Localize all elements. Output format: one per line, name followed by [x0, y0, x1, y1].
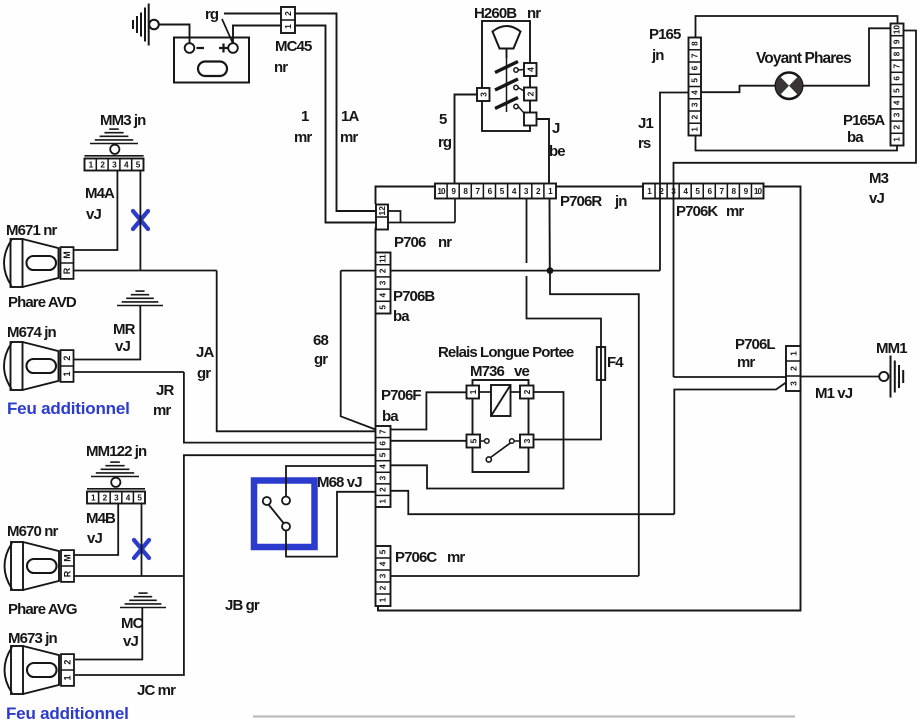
ground MM1 — [879, 372, 888, 381]
svg-text:nr: nr — [274, 59, 288, 76]
connector MM122 strip — [87, 492, 145, 504]
svg-text:3: 3 — [522, 438, 532, 443]
svg-text:2: 2 — [788, 366, 798, 371]
svg-text:P706C: P706C — [395, 549, 437, 566]
svg-text:4: 4 — [690, 90, 699, 95]
svg-text:rg: rg — [438, 134, 452, 151]
svg-text:M: M — [62, 251, 72, 259]
headlamp M674 jn - Feu additionnel — [4, 343, 12, 389]
svg-text:P165A: P165A — [843, 112, 885, 129]
svg-text:M1 vJ: M1 vJ — [815, 385, 853, 402]
wire rg to battery plus — [222, 19, 233, 43]
svg-text:M: M — [63, 554, 73, 562]
svg-text:P165: P165 — [649, 26, 681, 43]
pin out (bottom) of H260B — [524, 113, 537, 126]
svg-text:2: 2 — [379, 268, 388, 273]
svg-text:mr: mr — [447, 549, 465, 566]
connector P165 jn — [689, 38, 702, 136]
svg-text:Voyant Phares: Voyant Phares — [756, 50, 851, 67]
svg-text:JB gr: JB gr — [225, 597, 260, 614]
svg-text:Feu additionnel: Feu additionnel — [7, 399, 130, 418]
headlamp M671 nr - Phare AVD — [4, 240, 12, 286]
svg-text:J: J — [552, 120, 560, 137]
svg-text:5: 5 — [379, 305, 388, 310]
svg-text:mr: mr — [153, 402, 171, 419]
svg-text:mr: mr — [726, 203, 744, 220]
svg-text:MM3 jn: MM3 jn — [100, 112, 146, 129]
svg-text:6: 6 — [379, 441, 388, 446]
svg-text:M4B: M4B — [86, 510, 116, 527]
svg-text:P706R: P706R — [560, 193, 602, 210]
relay contact circles and arm — [480, 440, 485, 442]
wire main beam right feed into P706C pin 3 — [391, 575, 639, 577]
wire P706R pin 9 to pin 12 feed — [454, 199, 456, 223]
switch wiper 1 — [495, 62, 518, 73]
svg-text:5: 5 — [379, 452, 388, 457]
svg-text:vJ: vJ — [869, 190, 884, 207]
wire relay pin 5 to P706F pin 6 — [391, 440, 467, 442]
svg-text:2: 2 — [283, 11, 293, 16]
wire M673 pin 2 to ground MC — [75, 608, 142, 660]
svg-text:5: 5 — [690, 78, 699, 83]
svg-text:gr: gr — [197, 365, 211, 382]
wire phare AVG feed into P706F pin 5 — [184, 455, 376, 576]
svg-text:J1: J1 — [638, 115, 653, 132]
wire P165 pin 8 to P165A pin 10 (top loop) — [696, 16, 898, 38]
svg-text:4: 4 — [379, 561, 388, 566]
svg-text:MR: MR — [113, 321, 136, 338]
contact circles — [514, 68, 518, 72]
svg-text:1: 1 — [379, 498, 388, 503]
svg-text:1: 1 — [468, 389, 478, 394]
switch M68 vJ — [263, 497, 271, 505]
svg-text:1: 1 — [893, 137, 902, 142]
faded scan line bottom — [253, 715, 795, 717]
battery MC45 source — [174, 38, 249, 83]
connector P706 pin 12 (nr) — [376, 205, 388, 230]
switch H260B nr (lighting stalk) — [482, 21, 530, 131]
switch wiper 3 — [495, 98, 518, 109]
svg-text:gr: gr — [314, 351, 328, 368]
switch M68 vJ annotation box (blue) — [254, 481, 315, 548]
svg-text:5: 5 — [379, 549, 388, 554]
svg-text:2: 2 — [522, 389, 532, 394]
svg-text:5: 5 — [468, 438, 478, 443]
switch wiper 2 — [495, 79, 518, 90]
svg-text:jn: jn — [614, 193, 627, 210]
svg-text:Phare AVD: Phare AVD — [8, 294, 77, 311]
wire lamp to P165 pin 4 — [701, 86, 776, 93]
svg-text:9: 9 — [893, 39, 902, 44]
wire 5 rg from H260B pin 3 to P706R pin 9 — [455, 95, 478, 184]
wire phare AVG pin R (JB gr) — [75, 575, 184, 577]
svg-text:7: 7 — [893, 63, 902, 68]
svg-text:MM122 jn: MM122 jn — [86, 443, 147, 460]
svg-text:1: 1 — [283, 24, 293, 29]
wire M674 pin 1 (JR) — [74, 371, 184, 373]
svg-text:3: 3 — [478, 92, 488, 97]
wire M68 bottom to P706F pin 2 — [286, 492, 376, 557]
svg-text:1: 1 — [62, 371, 72, 376]
svg-text:2: 2 — [62, 356, 72, 361]
svg-text:2: 2 — [63, 660, 73, 665]
wire M4A vJ from MM3 pin 3 to M671 pin M — [74, 171, 118, 251]
svg-text:MC45: MC45 — [275, 38, 312, 55]
svg-text:mr: mr — [737, 354, 755, 371]
wire 68 gr from P706B pin 2 to P706F pin 7 — [341, 270, 376, 272]
svg-text:8: 8 — [893, 51, 902, 56]
svg-text:P706: P706 — [394, 234, 426, 251]
svg-text:P706L: P706L — [735, 336, 775, 353]
wire rg to MC45 pin 2 — [224, 13, 281, 15]
wire M674 pin 2 to ground MR — [74, 306, 140, 360]
svg-text:7: 7 — [379, 429, 388, 434]
relay pin 2 — [520, 386, 534, 399]
svg-text:2: 2 — [690, 114, 699, 119]
wire 1 mr from MC45 pin 1 — [295, 26, 376, 223]
svg-text:JA: JA — [196, 344, 214, 361]
svg-text:Phare AVG: Phare AVG — [8, 601, 77, 618]
ground MC vJ — [120, 607, 166, 609]
relay pin 1 — [467, 386, 480, 399]
svg-text:3: 3 — [788, 381, 798, 386]
svg-text:ba: ba — [393, 308, 410, 325]
svg-text:F4: F4 — [607, 354, 624, 371]
wire M68 top to P706F pin 4 — [286, 466, 376, 497]
relay coil — [491, 385, 511, 416]
svg-text:Feu additionnel: Feu additionnel — [6, 704, 129, 721]
svg-text:2: 2 — [379, 585, 388, 590]
svg-text:P706F: P706F — [381, 387, 421, 404]
relay pin 3 — [520, 435, 534, 448]
lamp Voyant Phares — [776, 73, 802, 99]
wire fuse F4 to relay pin 3 — [534, 380, 602, 440]
svg-text:rs: rs — [638, 135, 651, 152]
svg-text:4: 4 — [525, 67, 535, 72]
svg-text:vJ: vJ — [123, 633, 138, 650]
wire JA gr into P706F pin 7 — [217, 271, 376, 432]
svg-text:1: 1 — [788, 351, 798, 356]
svg-text:1: 1 — [690, 127, 699, 132]
fuse F4 — [597, 347, 605, 380]
ground MR vJ — [117, 305, 163, 307]
svg-text:mr: mr — [340, 129, 358, 146]
wire M673 pin 1 (JC mr) — [75, 576, 184, 675]
svg-text:nr: nr — [438, 234, 452, 251]
svg-text:nr: nr — [527, 5, 541, 22]
connector MC45 nr — [281, 7, 295, 33]
connector P706C mr — [376, 546, 391, 606]
svg-text:5: 5 — [893, 88, 902, 93]
wire M3 into P706L pin 2 — [674, 376, 787, 378]
svg-text:mr: mr — [294, 129, 312, 146]
svg-text:4: 4 — [379, 464, 388, 469]
relay pin 5 — [467, 435, 481, 448]
wire P706R pin 3 to fuse F4 — [526, 199, 528, 264]
connector P706K mr — [643, 184, 764, 199]
ground MM3 jn — [90, 143, 138, 145]
relay M736 ve - Relais Longue Portee — [473, 380, 529, 472]
wire coil to pin2 — [511, 391, 521, 393]
svg-text:6: 6 — [690, 65, 699, 70]
wire relay pin 1 to P706F pin 7 — [391, 392, 468, 429]
connector P706R jn — [435, 184, 556, 199]
pin 4 of H260B — [524, 63, 537, 76]
svg-text:2: 2 — [525, 91, 535, 96]
svg-text:P706B: P706B — [393, 288, 435, 305]
svg-text:1: 1 — [63, 675, 73, 680]
svg-text:jn: jn — [651, 47, 664, 64]
svg-text:4: 4 — [379, 292, 388, 297]
svg-text:3: 3 — [379, 280, 388, 285]
svg-text:ba: ba — [382, 408, 399, 425]
svg-text:M4A: M4A — [85, 185, 115, 202]
wire lamp to P165A pin 10 — [802, 28, 890, 85]
wire junction down to main-beam feed — [550, 271, 639, 576]
svg-text:8: 8 — [690, 41, 699, 46]
wire P706L pin 3 branch — [674, 383, 786, 515]
svg-text:5: 5 — [439, 111, 447, 128]
svg-text:M3: M3 — [869, 170, 889, 187]
svg-text:be: be — [549, 143, 565, 160]
svg-text:vJ: vJ — [115, 338, 130, 355]
wire MM122 pin 5 down to phare AVG return — [141, 504, 143, 577]
svg-text:2: 2 — [379, 487, 388, 492]
svg-text:MC: MC — [121, 615, 144, 632]
connector P706B ba — [376, 253, 391, 314]
svg-text:vJ: vJ — [86, 206, 101, 223]
svg-text:H260B: H260B — [474, 5, 517, 22]
wire J1 rs from junction up to P165 pin 4 — [660, 93, 689, 271]
wire pin1 to coil — [479, 391, 491, 393]
svg-text:ba: ba — [847, 129, 864, 146]
headlamp M673 jn - Feu additionnel 2 — [5, 647, 13, 693]
X annotation 2 (blue) — [134, 540, 149, 558]
headlamp M670 nr - Phare AVG — [5, 543, 13, 589]
svg-text:M673 jn: M673 jn — [8, 630, 57, 647]
svg-text:M670 nr: M670 nr — [7, 523, 58, 540]
wire M3 vJ from P165A pin 10 to P706L — [674, 31, 917, 378]
svg-text:11: 11 — [379, 254, 388, 263]
svg-text:68: 68 — [313, 332, 328, 349]
wire 1A mr from MC45 pin 2 — [295, 14, 376, 212]
svg-text:3: 3 — [379, 475, 388, 480]
svg-text:4: 4 — [893, 100, 902, 105]
wire J be from H260B to P706R pin 1 — [537, 119, 550, 184]
wire MM3 pin 5 down to phare AVD return — [139, 171, 141, 271]
connector P165A ba — [891, 24, 904, 146]
svg-text:3: 3 — [690, 102, 699, 107]
svg-text:R: R — [62, 267, 72, 274]
ECU box P706 — [376, 187, 801, 611]
svg-text:R: R — [63, 570, 73, 577]
ground (battery negative earth) — [132, 20, 134, 29]
wire phare AVD pin R (JA feed) — [74, 270, 217, 272]
wire P706F pin 2 right to P706L pin 3 net — [391, 491, 675, 514]
X annotation (blue) — [133, 211, 148, 229]
ground MM122 jn — [91, 476, 139, 478]
svg-text:12: 12 — [377, 206, 387, 216]
svg-text:rg: rg — [205, 6, 219, 23]
svg-text:M674 jn: M674 jn — [7, 324, 56, 341]
wire JR mr into P706F pin 6 — [184, 372, 376, 443]
svg-text:ve: ve — [514, 363, 529, 380]
svg-text:1A: 1A — [341, 108, 359, 125]
wire M1 vJ from P706L to ground MM1 — [801, 376, 880, 378]
svg-text:Relais Longue Portee: Relais Longue Portee — [438, 344, 574, 361]
svg-text:10: 10 — [893, 25, 902, 35]
svg-text:M68 vJ: M68 vJ — [317, 474, 362, 491]
connector P706L mr — [786, 346, 801, 391]
pin 2 of H260B — [524, 88, 537, 101]
svg-text:3: 3 — [893, 112, 902, 117]
svg-text:JC mr: JC mr — [137, 682, 176, 699]
wire ground to battery minus — [159, 25, 190, 44]
connector MM3 strip — [85, 159, 144, 171]
svg-text:JR: JR — [156, 382, 174, 399]
wire P165 pin 1 to P165A pin 1 (bottom loop) — [696, 136, 898, 151]
wire battery plus to MC45 pin 1 — [233, 26, 281, 44]
junction node J — [547, 267, 554, 274]
connector P706F ba — [376, 426, 391, 507]
svg-text:1: 1 — [379, 597, 388, 602]
svg-text:M671 nr: M671 nr — [6, 222, 57, 239]
svg-text:P706K: P706K — [676, 203, 718, 220]
svg-text:vJ: vJ — [87, 530, 102, 547]
wire relay pin 2 to P706F pin 4 loop — [391, 392, 564, 489]
wire P706B pin 2 to junction — [391, 270, 661, 272]
svg-text:3: 3 — [379, 573, 388, 578]
svg-text:6: 6 — [893, 76, 902, 81]
svg-text:2: 2 — [893, 124, 902, 129]
svg-text:MM1: MM1 — [876, 340, 907, 357]
pin 3 of H260B — [477, 88, 490, 101]
svg-text:M736: M736 — [470, 363, 504, 380]
svg-text:7: 7 — [690, 53, 699, 58]
svg-text:1: 1 — [301, 108, 309, 125]
wire M4B vJ from MM122 pin 3 to M670 pin M — [75, 504, 119, 556]
